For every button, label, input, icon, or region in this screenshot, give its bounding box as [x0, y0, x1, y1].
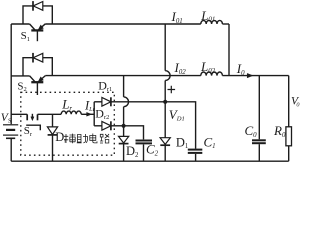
- wire: Dr2 anode lead: [94, 125, 102, 127]
- svg-text:VS: VS: [1, 112, 12, 125]
- wire: Ro bottom lead: [288, 146, 290, 161]
- svg-text:R0: R0: [273, 123, 286, 139]
- dashed box Dr auxiliary circuit: [21, 92, 115, 155]
- svg-text:D1: D1: [176, 135, 188, 150]
- wire: aux feed from rail to Sr: [11, 113, 27, 115]
- wire: C1 branch from VD1 node: [165, 102, 195, 149]
- plus sign polarity mark: [168, 86, 176, 94]
- wire: Dr1 cathode wire to VD1 node: [111, 101, 165, 103]
- svg-text:Dr: Dr: [55, 130, 67, 145]
- wire: C1 bottom lead: [195, 154, 197, 161]
- wire: C2 bottom lead: [143, 145, 145, 162]
- diode DS1 antiparallel loop wires: [23, 6, 52, 24]
- wire: T vertical from hop to D2: [123, 107, 125, 137]
- inductor Lr: [61, 111, 81, 114]
- wire: hop of mid vertical over output row: [165, 71, 170, 81]
- svg-text:L02: L02: [200, 59, 216, 75]
- wire: mid vertical from top wire down to hop: [164, 24, 166, 71]
- wire: output row from Lo2 to right edge: [222, 75, 288, 77]
- capacitor C2: [136, 141, 153, 144]
- battery Vs: [3, 125, 18, 139]
- wire: right vertical joining Lo1 branch to output node: [228, 24, 230, 76]
- svg-text:L01: L01: [200, 8, 215, 24]
- diode Dr1: [102, 97, 111, 106]
- svg-text:ILr: ILr: [84, 98, 96, 113]
- diode Dr2: [102, 121, 111, 130]
- svg-text:C1: C1: [204, 134, 216, 150]
- capacitor C1: [188, 150, 203, 153]
- wire: Dr top lead: [52, 114, 54, 127]
- svg-text:D2: D2: [126, 144, 139, 159]
- svg-text:Dr1: Dr1: [98, 78, 112, 93]
- node Dr2-D2-C2 junction dot: [122, 124, 126, 128]
- wire: S2 collector wire: [11, 75, 29, 77]
- char 助: [77, 134, 88, 143]
- switch Sr: [26, 114, 40, 131]
- svg-text:Lr: Lr: [61, 96, 72, 112]
- diode D2: [119, 136, 129, 143]
- diode DS1 (antiparallel with S1): [33, 1, 43, 11]
- wire: top wire from Lo1 to right corner: [222, 23, 229, 25]
- wire: battery negative stem: [10, 138, 12, 161]
- wire: left rail from S1 collector node down to battery: [10, 24, 12, 124]
- svg-text:I02: I02: [174, 60, 187, 76]
- text 辅助电路 caption drawn as strokes: [64, 134, 109, 144]
- wire: hop of T vertical over Dr1 wire: [124, 97, 129, 107]
- svg-text:I01: I01: [171, 9, 183, 25]
- svg-text:Sr: Sr: [24, 125, 33, 138]
- svg-text:Dr2: Dr2: [95, 106, 109, 121]
- inductor Lo1: [201, 20, 223, 24]
- char 辅: [64, 134, 76, 144]
- svg-text:VD1: VD1: [169, 107, 185, 123]
- arrow Io: [247, 73, 253, 77]
- inductor Lo2: [201, 72, 223, 76]
- wire: Co bottom lead: [258, 144, 260, 161]
- wire: D2 bottom lead: [123, 144, 125, 162]
- diode DS2 (antiparallel with S2): [33, 53, 43, 63]
- wire: aux diode rail vertical: [93, 102, 95, 126]
- transistor S1: [30, 24, 46, 41]
- diode D1: [160, 138, 170, 146]
- wire: Sr to Dr node to Lr: [38, 113, 62, 115]
- svg-text:C2: C2: [146, 141, 159, 157]
- diode Dr: [47, 127, 57, 135]
- wire: top wire from S1 emitter to Lo1: [45, 23, 200, 25]
- wire: Dr1 anode lead: [94, 101, 102, 103]
- wire: S2 emitter row to Lo2: [45, 75, 200, 77]
- resistor Ro: [286, 127, 292, 146]
- wire: Dr2 node to C2: [124, 126, 144, 140]
- svg-text:I0: I0: [236, 61, 245, 77]
- svg-text:S2: S2: [17, 80, 26, 93]
- wire: D1 bottom lead: [164, 145, 166, 161]
- wire: Dr bottom lead: [52, 135, 54, 161]
- wire: right edge vertical to Ro: [288, 76, 290, 128]
- svg-text:C0: C0: [245, 123, 258, 139]
- wire: mid vertical from hop to D1: [164, 81, 166, 138]
- node VD1 junction dot: [163, 100, 167, 104]
- capacitor Co: [252, 140, 266, 143]
- transistor S2: [30, 76, 46, 95]
- char 电: [90, 134, 97, 143]
- wire: T vertical from S2 emitter row down to hop over Dr1 wire: [123, 76, 125, 97]
- arrow ILr: [87, 112, 92, 116]
- svg-text:S1: S1: [21, 30, 30, 43]
- char 路: [100, 134, 109, 143]
- wire: Dr2 cathode wire to junction: [111, 125, 124, 127]
- wire: Co top lead: [258, 76, 260, 140]
- wire: Lr to diode rail with ILr arrow: [81, 113, 94, 115]
- wire: bottom return rail: [11, 160, 289, 162]
- svg-text:V0: V0: [291, 96, 300, 109]
- wire: S1 collector wire: [11, 23, 29, 25]
- diode DS2 antiparallel loop wires: [23, 58, 52, 76]
